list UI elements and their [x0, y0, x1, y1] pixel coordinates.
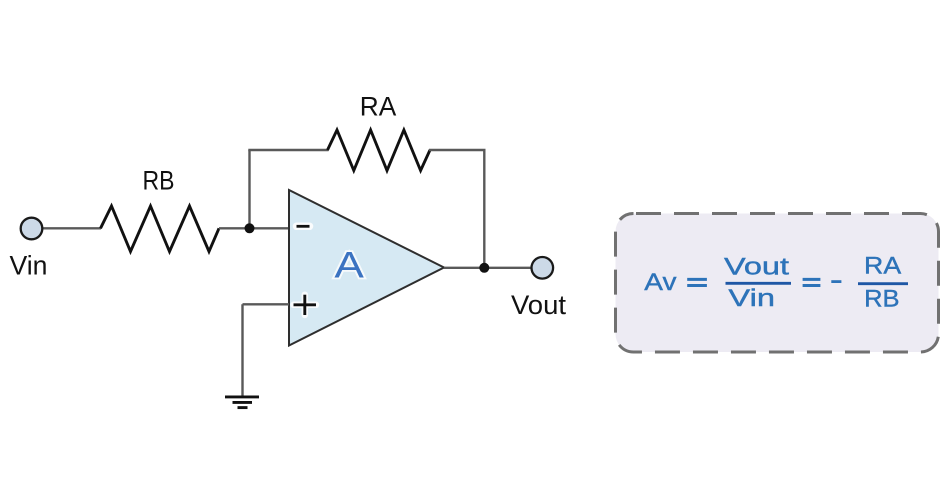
svg-text:A: A [334, 245, 364, 286]
wire: feedback vertical right [483, 150, 485, 268]
node: output junction [479, 263, 489, 273]
wire: RB to inverting node [219, 227, 289, 229]
op-amp plus pin symbol [294, 295, 317, 315]
fraction bar RA/RB [858, 282, 908, 285]
wire: feedback top left horizontal [248, 149, 328, 151]
resistor RB [101, 206, 220, 252]
formula equals sign 2 [803, 279, 821, 285]
node: inverting input junction [245, 223, 255, 233]
wire: feedback top right horizontal [429, 149, 486, 151]
output terminal Vout [532, 257, 554, 279]
op-amp U1 triangle [289, 190, 444, 346]
label A (op-amp gain) [334, 245, 364, 286]
svg-text:Av: Av [644, 269, 676, 296]
wire: non-inverting input vertical to ground [241, 304, 243, 396]
svg-text:Vout: Vout [511, 290, 566, 320]
formula minus sign [831, 280, 841, 283]
resistor RA [328, 130, 431, 171]
svg-text:Vin: Vin [728, 285, 775, 312]
wire: Vin terminal to resistor RB [42, 227, 101, 229]
formula text Av = Vout/Vin = - RA/RB [644, 253, 901, 313]
ground [225, 397, 259, 408]
fraction bar Vout/Vin [726, 282, 792, 285]
svg-text:RB: RB [864, 286, 899, 313]
formula equals sign 1 [687, 279, 707, 285]
svg-text:RB: RB [143, 166, 175, 196]
svg-text:Vout: Vout [724, 254, 789, 281]
op-amp minus pin symbol [297, 223, 310, 231]
wire: non-inverting input horizontal [243, 303, 290, 305]
svg-text:RA: RA [864, 253, 901, 280]
input terminal Vin [21, 218, 43, 240]
svg-text:RA: RA [360, 92, 397, 122]
wire: feedback vertical left [248, 150, 250, 228]
wire: op-amp output [444, 267, 532, 269]
formula box [616, 214, 939, 353]
svg-text:Vin: Vin [10, 251, 48, 281]
